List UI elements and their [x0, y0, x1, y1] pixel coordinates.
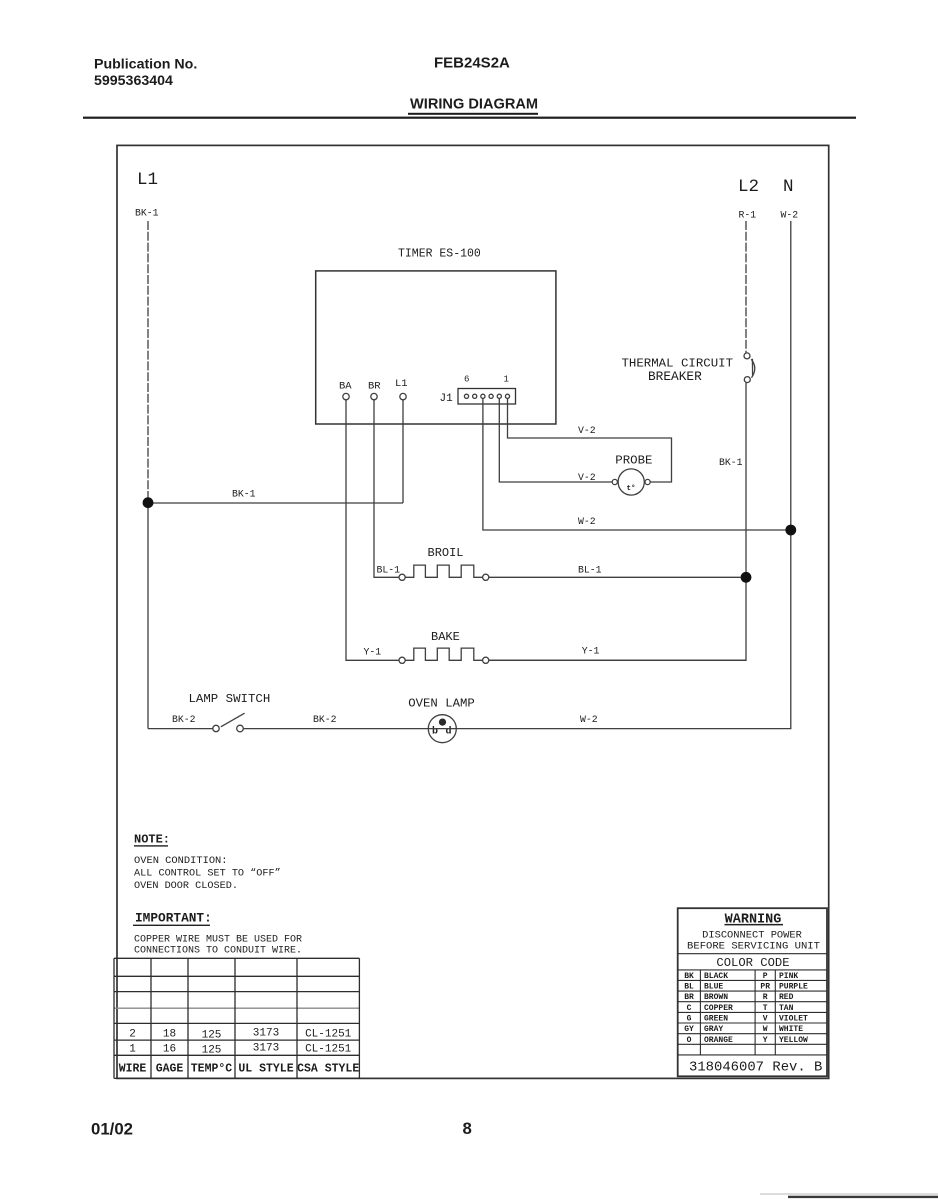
svg-text:BAKE: BAKE	[431, 630, 460, 644]
svg-text:125: 125	[202, 1045, 222, 1057]
svg-text:L1: L1	[395, 378, 408, 390]
svg-text:GRAY: GRAY	[704, 1025, 723, 1034]
svg-text:18: 18	[163, 1029, 176, 1041]
svg-text:L1: L1	[137, 170, 158, 190]
svg-text:UL STYLE: UL STYLE	[238, 1063, 293, 1076]
svg-text:COPPER: COPPER	[704, 1004, 733, 1013]
svg-text:GAGE: GAGE	[156, 1063, 184, 1076]
svg-text:W-2: W-2	[578, 516, 596, 527]
svg-text:L2: L2	[738, 177, 759, 197]
svg-text:TAN: TAN	[779, 1004, 794, 1013]
svg-text:T: T	[763, 1004, 768, 1013]
svg-text:OVEN LAMP: OVEN LAMP	[408, 697, 474, 711]
svg-text:W-2: W-2	[781, 210, 799, 221]
svg-text:TIMER ES-100: TIMER ES-100	[398, 248, 481, 261]
svg-text:O: O	[687, 1036, 692, 1045]
svg-text:Y: Y	[763, 1036, 768, 1045]
svg-text:WHITE: WHITE	[779, 1025, 803, 1034]
svg-text:BREAKER: BREAKER	[648, 369, 702, 384]
svg-text:FEB24S2A: FEB24S2A	[434, 55, 510, 72]
svg-text:BROIL: BROIL	[428, 546, 464, 560]
svg-text:BK-1: BK-1	[232, 489, 256, 500]
svg-text:WIRE: WIRE	[119, 1063, 147, 1076]
svg-text:ORANGE: ORANGE	[704, 1036, 733, 1045]
svg-text:BLUE: BLUE	[704, 983, 723, 992]
svg-text:WIRING DIAGRAM: WIRING DIAGRAM	[410, 97, 538, 113]
svg-text:R: R	[763, 993, 768, 1002]
svg-text:GREEN: GREEN	[704, 1015, 728, 1024]
svg-text:C: C	[687, 1004, 692, 1013]
svg-text:PR: PR	[760, 983, 770, 992]
svg-text:IMPORTANT:: IMPORTANT:	[135, 911, 212, 926]
svg-text:LAMP SWITCH: LAMP SWITCH	[189, 692, 271, 706]
svg-text:J1: J1	[440, 393, 454, 405]
svg-text:CSA STYLE: CSA STYLE	[297, 1063, 359, 1076]
svg-text:ALL CONTROL SET TO “OFF”: ALL CONTROL SET TO “OFF”	[134, 868, 281, 880]
svg-text:BK-2: BK-2	[313, 714, 337, 725]
svg-text:8: 8	[463, 1119, 472, 1138]
svg-text:W-2: W-2	[580, 714, 598, 725]
svg-text:5995363404: 5995363404	[94, 73, 173, 89]
svg-text:V-2: V-2	[578, 472, 596, 483]
svg-text:GY: GY	[684, 1025, 694, 1034]
svg-text:BR: BR	[684, 993, 694, 1002]
svg-text:Y-1: Y-1	[582, 646, 600, 657]
svg-text:BL-1: BL-1	[377, 564, 401, 575]
svg-text:BEFORE SERVICING UNIT: BEFORE SERVICING UNIT	[687, 940, 820, 952]
svg-text:Y-1: Y-1	[364, 646, 382, 657]
svg-text:V-2: V-2	[578, 425, 596, 436]
svg-text:BLACK: BLACK	[704, 972, 728, 981]
svg-text:CONNECTIONS TO CONDUIT WIRE.: CONNECTIONS TO CONDUIT WIRE.	[134, 946, 302, 957]
svg-text:1: 1	[129, 1044, 136, 1056]
svg-text:Publication No.: Publication No.	[94, 57, 197, 73]
svg-text:BR: BR	[368, 381, 381, 393]
svg-text:PURPLE: PURPLE	[779, 983, 808, 992]
svg-text:d: d	[446, 726, 452, 738]
svg-text:3173: 3173	[253, 1028, 279, 1040]
svg-text:BK-2: BK-2	[172, 714, 196, 725]
svg-text:CL-1251: CL-1251	[305, 1044, 352, 1056]
svg-text:16: 16	[163, 1044, 176, 1056]
svg-text:b: b	[432, 726, 438, 738]
svg-text:125: 125	[202, 1030, 222, 1042]
svg-text:PINK: PINK	[779, 972, 798, 981]
svg-text:BK-1: BK-1	[135, 208, 159, 219]
svg-text:1: 1	[504, 375, 509, 385]
svg-text:t°: t°	[627, 484, 636, 493]
svg-text:CL-1251: CL-1251	[305, 1029, 352, 1041]
svg-text:3173: 3173	[253, 1043, 279, 1055]
svg-text:NOTE:: NOTE:	[134, 832, 170, 846]
svg-text:2: 2	[129, 1029, 136, 1041]
svg-text:RED: RED	[779, 993, 794, 1002]
svg-text:BK-1: BK-1	[719, 457, 743, 468]
svg-text:OVEN DOOR CLOSED.: OVEN DOOR CLOSED.	[134, 881, 238, 892]
svg-text:BL: BL	[684, 983, 694, 992]
svg-text:P: P	[763, 972, 768, 981]
svg-text:COLOR CODE: COLOR CODE	[716, 956, 789, 970]
svg-text:01/02: 01/02	[91, 1120, 133, 1139]
svg-text:G: G	[687, 1015, 692, 1024]
svg-text:V: V	[763, 1015, 768, 1024]
svg-text:BROWN: BROWN	[704, 993, 728, 1002]
svg-text:COPPER WIRE MUST BE USED FOR: COPPER WIRE MUST BE USED FOR	[134, 934, 302, 945]
svg-text:318046007 Rev. B: 318046007 Rev. B	[689, 1060, 822, 1076]
svg-text:TEMP°C: TEMP°C	[191, 1063, 233, 1076]
svg-text:BA: BA	[339, 381, 352, 393]
svg-text:BK: BK	[684, 972, 694, 981]
svg-text:R-1: R-1	[739, 210, 757, 221]
svg-text:VIOLET: VIOLET	[779, 1015, 808, 1024]
svg-text:BL-1: BL-1	[578, 564, 602, 575]
svg-text:PROBE: PROBE	[615, 453, 652, 467]
svg-text:W: W	[763, 1025, 768, 1034]
svg-text:6: 6	[464, 375, 469, 385]
svg-text:YELLOW: YELLOW	[779, 1036, 808, 1045]
svg-text:N: N	[783, 177, 794, 197]
svg-text:OVEN CONDITION:: OVEN CONDITION:	[134, 855, 228, 867]
